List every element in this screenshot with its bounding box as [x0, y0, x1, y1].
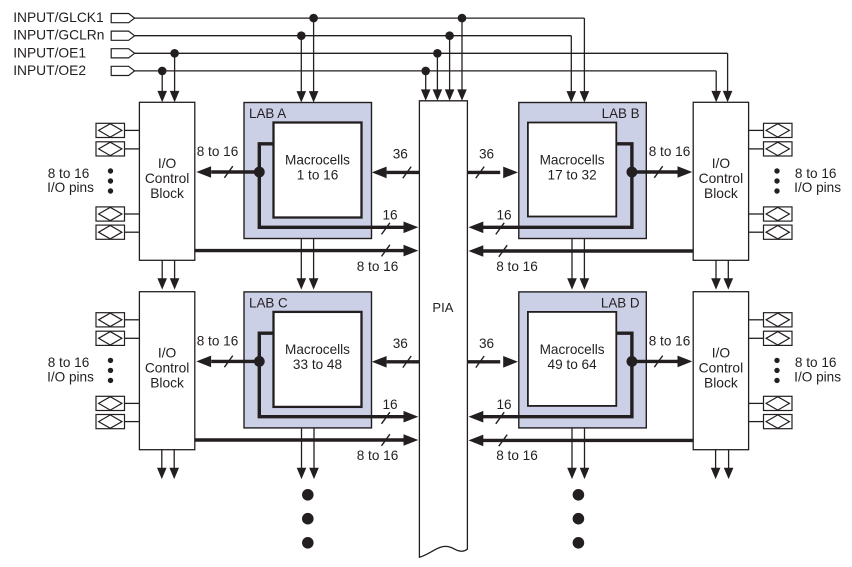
svg-text:Control: Control	[145, 171, 189, 186]
svg-text:Block: Block	[150, 376, 184, 391]
ellipsis dot below LAB D 1	[573, 489, 585, 501]
ellipsis dot below LAB C 2	[302, 513, 314, 525]
svg-text:8 to 16: 8 to 16	[48, 355, 90, 370]
bottom right I/O pins ellipsis dot 1	[774, 358, 779, 363]
wire top left I/O pin stub 1	[125, 129, 140, 131]
input pin symbol INPUT/OE2	[111, 66, 134, 75]
LAB C macrocells box	[274, 312, 362, 407]
wire top right I/O pin stub 4	[749, 231, 764, 233]
top left I/O pins ellipsis dot 3	[108, 188, 113, 193]
bottom right I/O pins ellipsis dot 3	[774, 378, 779, 383]
svg-text:I/O: I/O	[158, 156, 177, 171]
wire left I/O Control Block output down to bottom half	[161, 260, 163, 280]
wire INPUT/GCLRn drop to LAB B arrowhead	[567, 91, 577, 102]
wire top right I/O pin stub 3	[749, 213, 764, 215]
wire bottom left I/O 8 to 16 bus to PIA	[195, 438, 404, 441]
svg-text:Control: Control	[145, 361, 189, 376]
top left I/O Control Block	[139, 102, 194, 260]
wire bottom right I/O Control Block output exit	[728, 450, 730, 470]
wire INPUT/GLCK1 drop to LAB B	[583, 18, 585, 92]
wire PIA 36 bus to LAB A	[387, 171, 420, 174]
svg-text:LAB A: LAB A	[249, 106, 286, 121]
wire INPUT/GCLRn drop to LAB A	[300, 36, 302, 92]
wire top left I/O bus arrowhead into PIA	[404, 245, 419, 257]
LAB D macrocells box	[528, 312, 616, 406]
wire bottom right I/O Control Block output exit arrowhead	[724, 468, 734, 479]
wire LAB D branch arrowhead into right I/O block	[678, 356, 693, 368]
wire bottom right I/O Control Block output exit arrowhead	[711, 468, 721, 479]
top right I/O pins ellipsis dot 1	[774, 168, 779, 173]
svg-text:49 to 64: 49 to 64	[548, 357, 598, 372]
LAB C branch slash	[224, 356, 232, 368]
wire LAB A output arrowhead	[309, 278, 319, 289]
svg-text:8 to 16: 8 to 16	[357, 259, 399, 274]
wire INPUT/GLCK1 drop to LAB A arrowhead	[309, 91, 319, 102]
svg-text:36: 36	[393, 147, 408, 162]
wire top right I/O bus arrowhead into PIA	[469, 245, 484, 257]
LAB D 16 bus slash	[496, 412, 504, 424]
LAB A branch slash	[224, 166, 232, 178]
node INPUT/GCLRn junction to LAB A	[297, 31, 306, 40]
wire left I/O Control Block output arrowhead	[157, 278, 167, 289]
node INPUT/GLCK1 junction to LAB A	[309, 14, 318, 23]
svg-text:16: 16	[496, 208, 511, 223]
wire INPUT/GLCK1 horizontal run	[135, 17, 585, 19]
LAB B macrocells box	[528, 123, 616, 217]
top left I/O bus slash	[382, 245, 390, 257]
top right I/O bus slash	[499, 245, 507, 257]
wire LAB A output down to bottom half	[313, 239, 315, 281]
wire top left I/O pin stub 2	[125, 148, 140, 150]
wire bottom right I/O pin stub 3	[749, 402, 764, 404]
svg-text:LAB C: LAB C	[249, 295, 288, 310]
ellipsis dot below LAB C 1	[302, 489, 314, 501]
wire LAB A 16 bus arrowhead into PIA	[404, 222, 419, 234]
wire bottom left I/O bus arrowhead into PIA	[404, 434, 419, 446]
wire INPUT/GLCK1 drop to LAB A	[313, 18, 315, 92]
wire right I/O Control Block output arrowhead	[724, 278, 734, 289]
wire LAB D output exit arrowhead	[567, 468, 577, 479]
wire INPUT/OE1 drop to PIA	[436, 53, 438, 90]
wire top right I/O 8 to 16 bus to PIA	[483, 249, 693, 252]
wire bottom left I/O Control Block output exit	[173, 450, 175, 470]
svg-text:8 to 16: 8 to 16	[197, 144, 239, 159]
wire LAB A output down to bottom half	[300, 239, 302, 281]
wire LAB B 8 to 16 branch to right I/O block	[632, 170, 678, 173]
node INPUT/GLCK1 junction to PIA	[458, 14, 467, 23]
wire PIA 36 bus to LAB D	[467, 360, 500, 363]
svg-text:36: 36	[393, 336, 408, 351]
bottom right I/O bus slash	[499, 435, 507, 447]
svg-text:1 to 16: 1 to 16	[297, 168, 339, 183]
top left I/O pin symbol 2	[96, 142, 125, 156]
wire bottom right I/O 8 to 16 bus to PIA	[483, 439, 693, 442]
input pin symbol INPUT/OE1	[111, 49, 134, 58]
wire INPUT/OE2 drop to right I/O Control Block arrowhead	[711, 91, 721, 102]
top right I/O pin symbol 3	[764, 207, 793, 221]
node LAB D bus junction	[627, 356, 638, 367]
wire top left I/O pin stub 3	[125, 213, 140, 215]
wire LAB B output down to bottom half	[583, 239, 585, 281]
ellipsis dot below LAB D 3	[573, 537, 585, 549]
bottom right I/O pin symbol 2	[764, 331, 793, 345]
wire PIA 36 bus arrowhead into LAB C	[372, 356, 387, 368]
svg-text:I/O pins: I/O pins	[47, 370, 94, 385]
svg-text:I/O: I/O	[712, 346, 731, 361]
wire LAB B output arrowhead	[567, 278, 577, 289]
svg-text:Macrocells: Macrocells	[540, 342, 605, 357]
wire left I/O Control Block output down to bottom half	[174, 260, 176, 280]
wire bottom left I/O pin stub 4	[125, 421, 140, 423]
wire LAB C output exit	[313, 428, 315, 470]
wire INPUT/OE1 drop to right I/O Control Block arrowhead	[723, 91, 733, 102]
wire LAB A macrocell output bus (16 to PIA)	[259, 144, 404, 228]
svg-text:INPUT/GLCK1: INPUT/GLCK1	[13, 10, 103, 25]
svg-text:8 to 16: 8 to 16	[48, 166, 90, 181]
svg-text:INPUT/OE2: INPUT/OE2	[13, 63, 86, 78]
wire INPUT/OE2 drop to right I/O Control Block	[715, 71, 717, 92]
wire bottom right I/O pin stub 4	[749, 421, 764, 423]
PIA 36 bus slash right top	[476, 167, 484, 179]
svg-text:Macrocells: Macrocells	[540, 153, 605, 168]
top right I/O pins ellipsis dot 2	[774, 178, 779, 183]
node LAB C bus junction	[254, 356, 265, 367]
svg-text:17 to 32: 17 to 32	[548, 168, 597, 183]
bottom left I/O pin symbol 3	[96, 396, 125, 410]
wire LAB C 16 bus arrowhead into PIA	[404, 411, 419, 423]
svg-text:33 to 48: 33 to 48	[293, 357, 342, 372]
wire INPUT/GLCK1 drop to LAB B arrowhead	[580, 91, 590, 102]
bottom left I/O Control Block	[139, 292, 194, 450]
svg-text:Macrocells: Macrocells	[285, 342, 350, 357]
LAB A 16 bus slash	[382, 223, 390, 235]
wire bottom left I/O Control Block output exit arrowhead	[157, 468, 167, 479]
wire LAB A branch arrowhead into left I/O block	[196, 166, 211, 178]
wire INPUT/OE2 drop to left I/O Control Block arrowhead	[157, 91, 167, 102]
wire bottom right I/O pin stub 2	[749, 337, 764, 339]
input pin symbol INPUT/GLCK1	[111, 14, 134, 23]
wire left I/O Control Block output arrowhead	[170, 278, 180, 289]
svg-text:8 to 16: 8 to 16	[649, 333, 691, 348]
svg-text:16: 16	[382, 208, 397, 223]
wire LAB C branch arrowhead into left I/O block	[196, 356, 211, 368]
wire LAB B output arrowhead	[580, 278, 590, 289]
wire bottom left I/O pin stub 3	[125, 402, 140, 404]
LAB A block	[244, 103, 372, 239]
svg-text:8 to 16: 8 to 16	[496, 448, 538, 463]
wire INPUT/GCLRn horizontal run	[135, 35, 572, 37]
svg-text:36: 36	[479, 147, 494, 162]
svg-text:Block: Block	[704, 186, 738, 201]
wire INPUT/OE1 drop to left I/O Control Block arrowhead	[170, 91, 180, 102]
wire PIA 36 bus arrowhead into LAB A	[372, 167, 387, 179]
svg-text:I/O pins: I/O pins	[794, 370, 841, 385]
svg-text:Macrocells: Macrocells	[285, 153, 350, 168]
wire INPUT/GCLRn drop to PIA arrowhead	[445, 89, 455, 100]
bottom left I/O bus slash	[382, 434, 390, 446]
wire LAB D 8 to 16 branch to right I/O block	[632, 360, 678, 363]
wire top left I/O 8 to 16 bus to PIA	[195, 249, 404, 252]
bottom right I/O pins ellipsis dot 2	[774, 368, 779, 373]
wire bottom left I/O pin stub 2	[125, 337, 140, 339]
svg-text:INPUT/OE1: INPUT/OE1	[13, 45, 86, 60]
wire PIA 36 bus to LAB C	[387, 360, 420, 363]
input pin symbol INPUT/GCLRn	[111, 31, 134, 40]
LAB C 16 bus slash	[382, 412, 390, 424]
node LAB B bus junction	[627, 167, 638, 178]
svg-text:I/O: I/O	[158, 346, 177, 361]
svg-text:LAB D: LAB D	[601, 295, 640, 310]
node LAB A bus junction	[254, 167, 265, 178]
wire LAB A output arrowhead	[297, 278, 307, 289]
svg-text:8 to 16: 8 to 16	[357, 448, 399, 463]
wire INPUT/GCLRn drop to PIA	[449, 36, 451, 91]
top right I/O pins ellipsis dot 3	[774, 188, 779, 193]
top right I/O Control Block	[693, 102, 748, 260]
wire INPUT/OE1 drop to right I/O Control Block	[727, 53, 729, 92]
bottom left I/O pin symbol 1	[96, 313, 125, 327]
node INPUT/OE2 junction to left I/O	[158, 67, 167, 76]
svg-text:16: 16	[496, 397, 511, 412]
svg-text:36: 36	[479, 336, 494, 351]
svg-text:8 to 16: 8 to 16	[197, 333, 239, 348]
wire right I/O Control Block output arrowhead	[711, 278, 721, 289]
bottom right I/O pin symbol 4	[764, 415, 793, 429]
wire bottom left I/O Control Block output exit arrowhead	[169, 468, 179, 479]
svg-text:LAB B: LAB B	[602, 106, 640, 121]
wire LAB D output exit arrowhead	[580, 468, 590, 479]
bottom left I/O pin symbol 4	[96, 415, 125, 429]
wire LAB B macrocell output bus (16 to PIA)	[483, 144, 632, 228]
bottom left I/O pins ellipsis dot 2	[108, 368, 113, 373]
wire bottom left I/O pin stub 1	[125, 319, 140, 321]
ellipsis dot below LAB D 2	[573, 513, 585, 525]
PIA 36 bus slash left bottom	[403, 356, 411, 368]
LAB C block	[244, 292, 372, 428]
wire top left I/O pin stub 4	[125, 231, 140, 233]
svg-text:8 to 16: 8 to 16	[795, 355, 837, 370]
wire bottom left I/O Control Block output exit	[161, 450, 163, 470]
wire LAB D 16 bus arrowhead into PIA	[469, 411, 484, 423]
wire INPUT/OE2 horizontal run	[135, 70, 717, 72]
wire LAB A 8 to 16 branch to left I/O block	[211, 170, 259, 173]
svg-text:I/O: I/O	[712, 156, 731, 171]
wire PIA 36 bus to LAB B	[467, 171, 500, 174]
svg-text:8 to 16: 8 to 16	[649, 144, 691, 159]
top right I/O pin symbol 4	[764, 225, 793, 239]
PIA block	[419, 101, 467, 557]
svg-text:I/O pins: I/O pins	[47, 180, 94, 195]
wire right I/O Control Block output down to bottom half	[727, 260, 729, 280]
wire INPUT/OE2 drop to PIA arrowhead	[421, 89, 431, 100]
wire LAB D output exit	[584, 428, 586, 470]
svg-text:I/O pins: I/O pins	[794, 180, 841, 195]
wire PIA 36 bus arrowhead into LAB B	[503, 167, 518, 179]
bottom left I/O pins ellipsis dot 3	[108, 378, 113, 383]
wire INPUT/OE1 drop to left I/O Control Block	[174, 53, 176, 92]
wire LAB D macrocell output bus (16 to PIA)	[483, 333, 632, 417]
wire bottom right I/O pin stub 1	[749, 319, 764, 321]
LAB B branch slash	[654, 166, 662, 178]
svg-text:Control: Control	[699, 171, 743, 186]
wire LAB C macrocell output bus (16 to PIA)	[259, 333, 404, 417]
wire LAB C output exit arrowhead	[309, 468, 319, 479]
svg-text:Block: Block	[704, 376, 738, 391]
top right I/O pin symbol 2	[764, 142, 793, 156]
LAB A macrocells box	[274, 123, 362, 218]
wire bottom right I/O Control Block output exit	[715, 450, 717, 470]
svg-text:8 to 16: 8 to 16	[496, 259, 538, 274]
top left I/O pins ellipsis dot 1	[108, 168, 113, 173]
wire LAB C output exit	[301, 428, 303, 470]
wire PIA 36 bus arrowhead into LAB D	[503, 356, 518, 368]
wire bottom right I/O bus arrowhead into PIA	[469, 435, 484, 447]
top left I/O pin symbol 4	[96, 225, 125, 239]
wire LAB C 8 to 16 branch to left I/O block	[211, 360, 259, 363]
wire INPUT/GLCK1 drop to PIA	[461, 18, 463, 90]
ellipsis dot below LAB C 3	[302, 537, 314, 549]
wire INPUT/OE2 drop to PIA	[425, 71, 427, 90]
wire right I/O Control Block output down to bottom half	[715, 260, 717, 280]
svg-text:Block: Block	[150, 186, 184, 201]
wire INPUT/OE2 drop to left I/O Control Block	[161, 71, 163, 92]
wire LAB C output exit arrowhead	[297, 468, 307, 479]
svg-text:8 to 16: 8 to 16	[795, 166, 837, 181]
bottom right I/O Control Block	[693, 292, 748, 450]
wire INPUT/GCLRn drop to LAB B	[570, 36, 572, 92]
node INPUT/OE1 junction to PIA	[433, 49, 442, 58]
node INPUT/GCLRn junction to PIA	[445, 31, 454, 40]
node INPUT/OE1 junction to left I/O	[170, 49, 179, 58]
bottom right I/O pin symbol 3	[764, 396, 793, 410]
LAB B block	[519, 103, 647, 239]
LAB D branch slash	[654, 356, 662, 368]
top left I/O pin symbol 3	[96, 207, 125, 221]
svg-text:16: 16	[382, 397, 397, 412]
top left I/O pin symbol 1	[96, 123, 125, 137]
wire INPUT/GCLRn drop to LAB A arrowhead	[297, 91, 307, 102]
top left I/O pins ellipsis dot 2	[108, 178, 113, 183]
wire LAB D output exit	[571, 428, 573, 470]
bottom left I/O pin symbol 2	[96, 331, 125, 345]
LAB B 16 bus slash	[496, 223, 504, 235]
wire LAB B 16 bus arrowhead into PIA	[469, 222, 484, 234]
wire top right I/O pin stub 1	[749, 129, 764, 131]
wire LAB B branch arrowhead into right I/O block	[678, 166, 693, 178]
wire top right I/O pin stub 2	[749, 148, 764, 150]
PIA 36 bus slash left top	[403, 167, 411, 179]
svg-text:Control: Control	[699, 361, 743, 376]
PIA 36 bus slash right bottom	[476, 356, 484, 368]
top right I/O pin symbol 1	[764, 123, 793, 137]
svg-text:PIA: PIA	[432, 300, 453, 315]
wire INPUT/OE1 drop to PIA arrowhead	[433, 89, 443, 100]
svg-text:INPUT/GCLRn: INPUT/GCLRn	[13, 28, 104, 43]
wire LAB B output down to bottom half	[571, 239, 573, 281]
wire INPUT/OE1 horizontal run	[135, 52, 728, 54]
wire INPUT/GLCK1 drop to PIA arrowhead	[457, 89, 467, 100]
node INPUT/OE2 junction to PIA	[421, 67, 430, 76]
bottom right I/O pin symbol 1	[764, 313, 793, 327]
bottom left I/O pins ellipsis dot 1	[108, 358, 113, 363]
LAB D block	[519, 292, 647, 428]
